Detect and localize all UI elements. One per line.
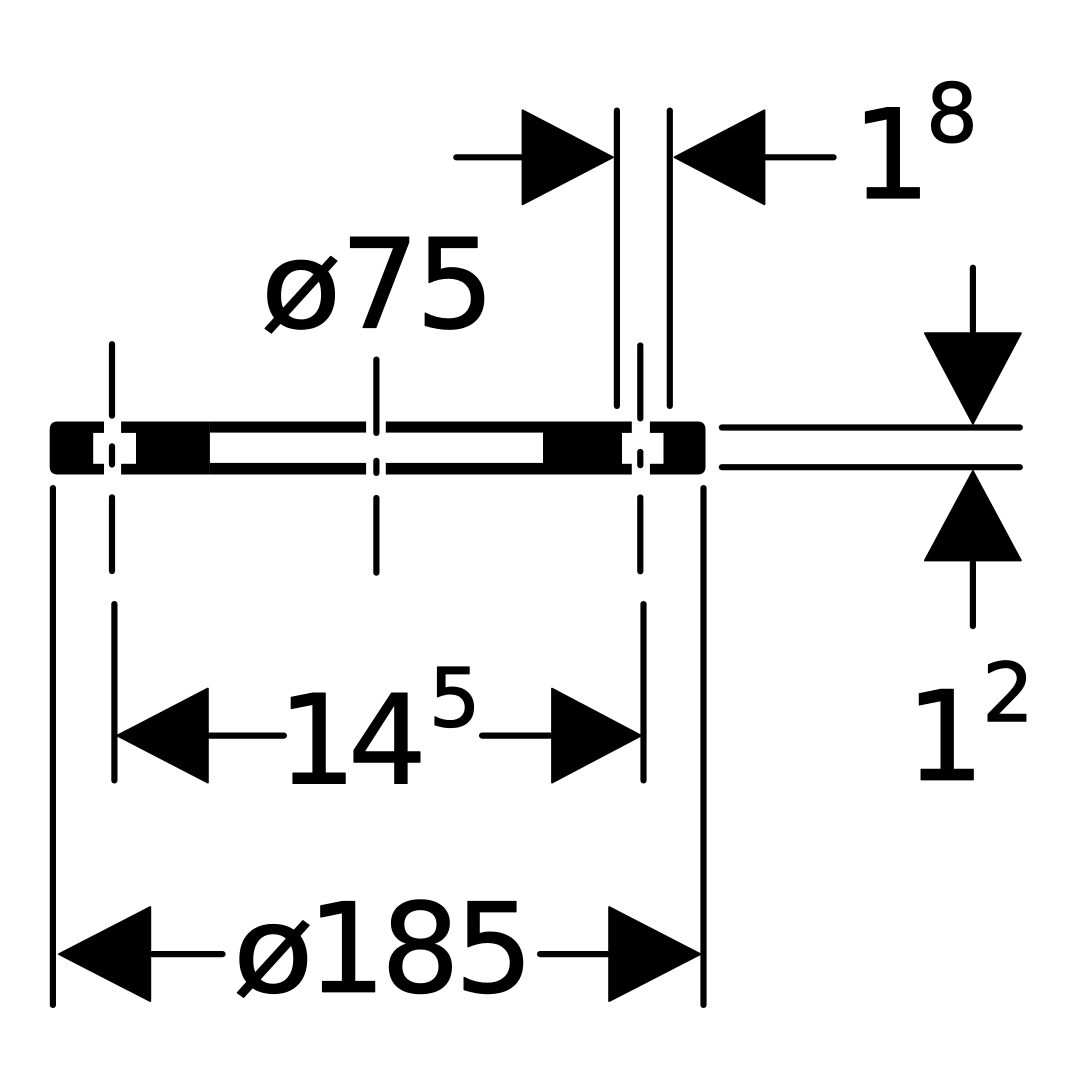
- dimension 1.8 right tail: [766, 154, 834, 160]
- groove notch in right end block: [649, 433, 664, 464]
- dimension 14.5 right extension line: [640, 604, 646, 780]
- dimension 1.2 lower arrowhead: [925, 471, 1021, 560]
- label 1.8: glyph 1: [866, 108, 920, 198]
- left joint centerline lower dash: [109, 497, 115, 571]
- left joint centerline upper dash: [109, 344, 115, 416]
- label ø185: glyph ø: [237, 921, 309, 998]
- dimension 1.8 left tail: [456, 154, 521, 160]
- right joint centerline lower dash: [637, 498, 643, 572]
- label ø75: glyph 7: [351, 237, 409, 327]
- right end block: [650, 422, 706, 475]
- groove notch in left end block: [93, 433, 104, 464]
- label ø185: glyph 1: [321, 901, 375, 991]
- label 14.5: glyph 1: [291, 693, 345, 783]
- dimension 185 left tail: [152, 951, 222, 957]
- dimension 1.2 upper arrow tail: [970, 268, 976, 331]
- dimension 185 left arrowhead: [59, 907, 150, 1001]
- dimension 1.8 right extension line: [667, 111, 673, 406]
- right joint centerline upper dash: [637, 346, 643, 419]
- dimension 1.2 lower arrow tail: [970, 563, 976, 627]
- right inner solid section: [543, 422, 632, 475]
- centerline slit through web walls: [366, 420, 386, 476]
- dimension 1.8 left arrowhead: [523, 110, 613, 204]
- dimension 1.8 right arrowhead: [675, 110, 765, 204]
- left joint centerline middle dash: [109, 446, 115, 464]
- dimension 14.5 left extension line: [111, 604, 117, 780]
- dimension 1.2 top surface line: [722, 424, 1020, 430]
- left inner solid section: [121, 422, 210, 475]
- bottom wall of hollow web: [210, 463, 543, 475]
- part centerline upper dash: [373, 360, 379, 433]
- dimension 14.5 right tail: [482, 732, 550, 738]
- label 14.5: glyph 4: [354, 693, 420, 783]
- dimension 1.8 left extension line: [614, 111, 620, 406]
- dimension 185 right extension line: [700, 488, 706, 1005]
- label ø75: glyph 5: [425, 237, 483, 329]
- dimension 14.5 left arrowhead: [117, 689, 208, 783]
- label ø185: glyph 8: [389, 900, 451, 994]
- right joint centerline middle dash: [637, 452, 643, 465]
- groove notch in left inner section: [119, 433, 136, 464]
- part centerline middle dash: [373, 461, 379, 473]
- label 14.5: superscript 5: [435, 667, 473, 727]
- label 1.8: superscript 8: [932, 81, 973, 142]
- dimension 1.2 upper arrowhead: [925, 333, 1021, 423]
- part centerline lower dash: [373, 498, 379, 573]
- label 1.2: glyph 1: [919, 689, 973, 779]
- dimension 14.5 right arrowhead: [552, 689, 641, 783]
- dimension 14.5 left tail: [210, 732, 284, 738]
- label 1.2: superscript 2: [988, 661, 1026, 721]
- dimension 1.2 bottom surface line: [722, 464, 1020, 470]
- label ø185: glyph 5: [464, 901, 522, 993]
- groove notch in right inner section: [622, 433, 634, 464]
- label ø75: glyph ø: [265, 256, 337, 333]
- dimension 185 right tail: [540, 951, 607, 957]
- top wall of hollow web: [210, 422, 543, 433]
- seal cross-section: left end block: [50, 422, 104, 475]
- dimension 185 left extension line: [50, 488, 56, 1005]
- dimension 185 right arrowhead: [609, 907, 700, 1001]
